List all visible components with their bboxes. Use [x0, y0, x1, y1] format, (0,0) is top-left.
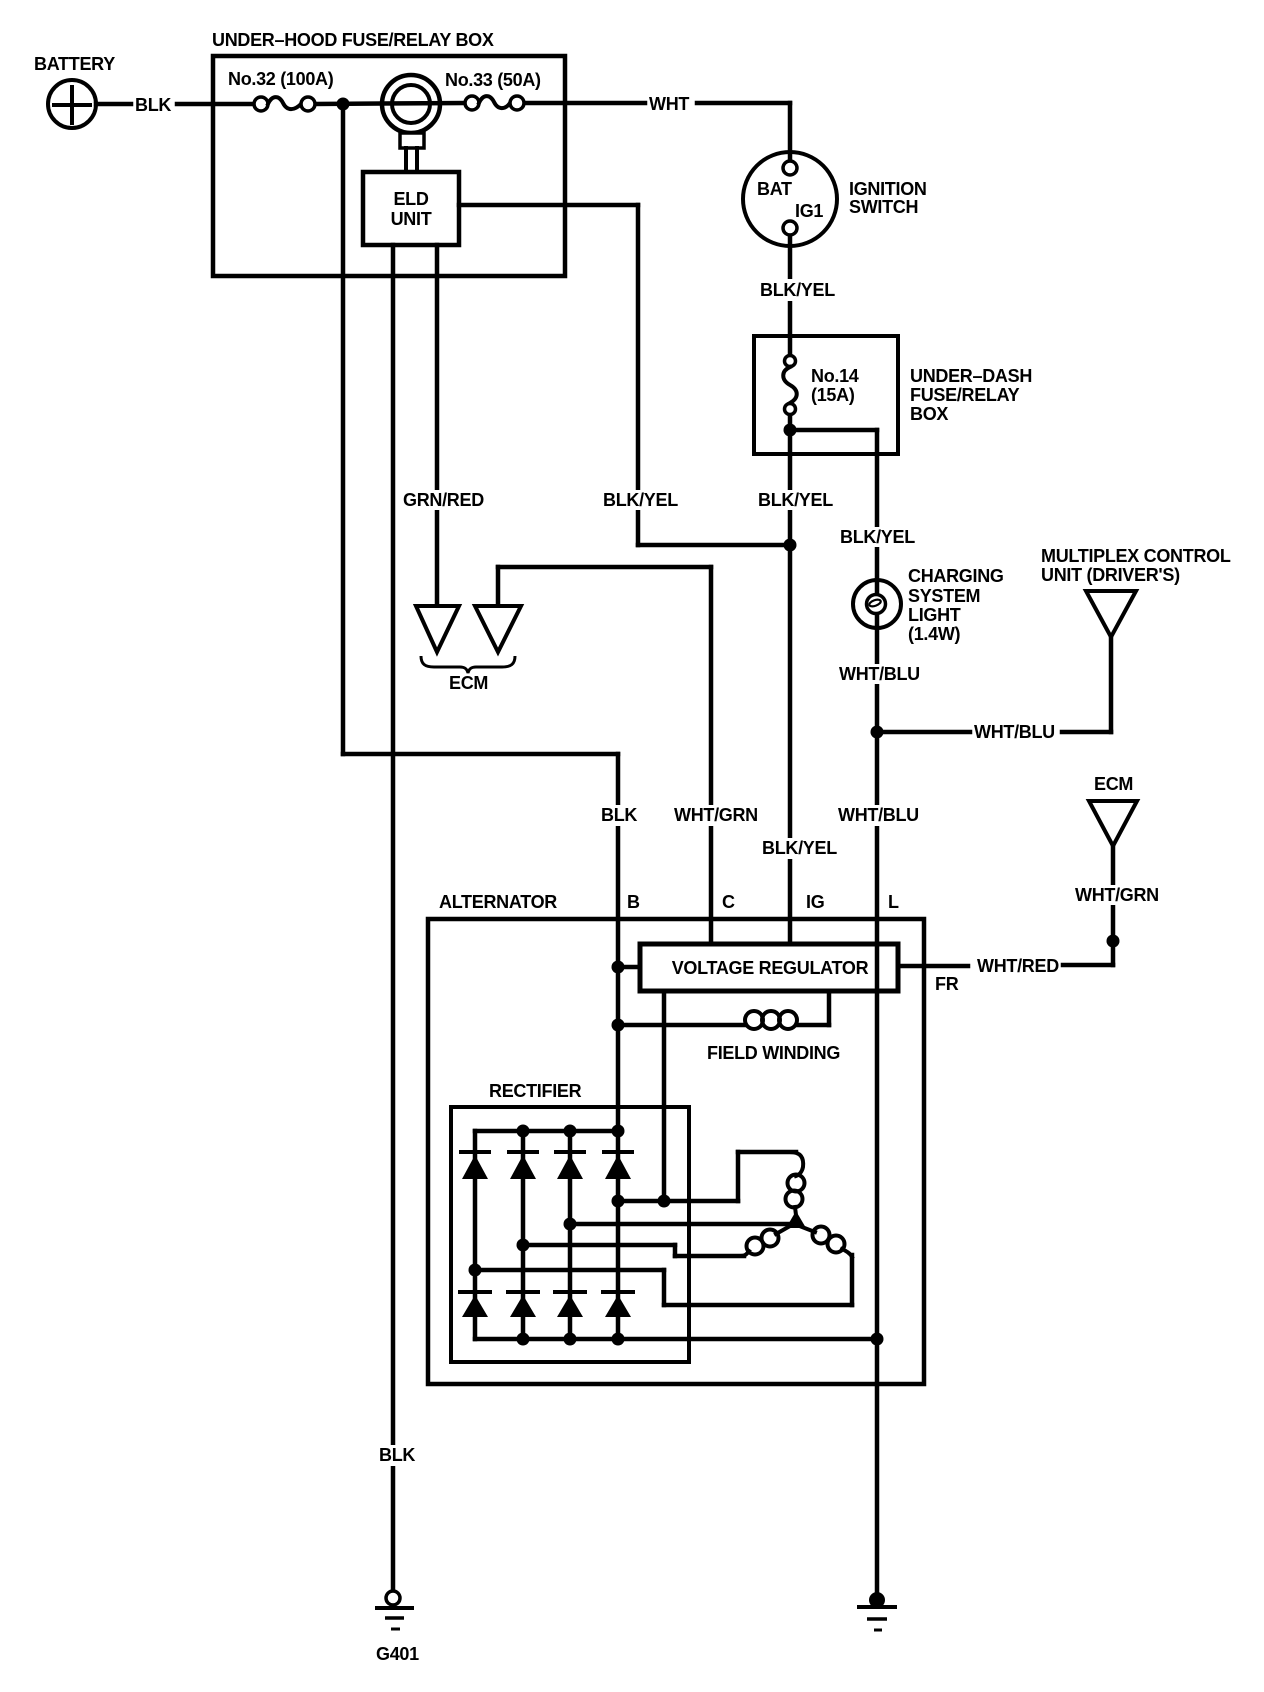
wire ELD pin GRN/RED to ECM triangle [435, 245, 440, 606]
ECM connector triangle 2 [475, 606, 521, 652]
stator star point [786, 1211, 806, 1228]
wire diode column 3 [568, 1131, 573, 1339]
svg-text:L: L [888, 892, 899, 912]
svg-text:WHT/GRN: WHT/GRN [1075, 885, 1159, 905]
label MULTIPLEX CONTROL UNIT (DRIVER'S) [1041, 546, 1231, 585]
rectifier diode D1 upper [461, 1152, 489, 1179]
label BLK/YEL ignition [756, 279, 835, 301]
alternator box [428, 919, 924, 1384]
svg-text:UNDER–DASH: UNDER–DASH [910, 366, 1032, 386]
svg-text:WHT/BLU: WHT/BLU [838, 805, 919, 825]
wire regulator C drop to rectifier [662, 991, 667, 1201]
svg-text:LIGHT: LIGHT [908, 605, 961, 625]
rectifier diode D4 upper [604, 1152, 632, 1179]
wire L column to ground [875, 1339, 880, 1594]
ground G401 [377, 1591, 412, 1629]
junction node fuse box [337, 98, 350, 111]
svg-text:WHT/BLU: WHT/BLU [839, 664, 920, 684]
junction node phase tap 4 [469, 1264, 482, 1277]
svg-text:IG: IG [806, 892, 824, 912]
fuse No.33 [465, 96, 524, 110]
fuse No.32 [254, 97, 315, 111]
junction node bottom bus 3 [612, 1333, 625, 1346]
wire charging light to L column through regulator [875, 612, 880, 1339]
wire WHT to ignition switch [697, 103, 790, 161]
voltage regulator box [640, 944, 898, 991]
wire B column vertical [616, 754, 621, 1339]
multiplex control unit connector triangle [1086, 591, 1136, 637]
svg-text:SYSTEM: SYSTEM [908, 586, 980, 606]
ground right [859, 1592, 895, 1630]
wire rectifier bottom bus [475, 1337, 877, 1342]
svg-text:BLK/YEL: BLK/YEL [840, 527, 915, 547]
ELD unit U1 box [363, 172, 459, 245]
ELD current sensor ring [382, 75, 440, 172]
svg-text:WHT/RED: WHT/RED [977, 956, 1059, 976]
junction node B field winding [612, 1019, 625, 1032]
svg-text:FIELD WINDING: FIELD WINDING [707, 1043, 840, 1063]
svg-text:CHARGING: CHARGING [908, 566, 1004, 586]
wire BLK battery to under-hood box [96, 102, 254, 107]
wire phase 1 tap to stator coil 1 [618, 1152, 796, 1201]
wire WHT/BLU to multiplex unit [877, 637, 1111, 732]
svg-text:BLK/YEL: BLK/YEL [760, 280, 835, 300]
stator coil 3 [802, 1227, 852, 1258]
field winding coil [745, 1011, 797, 1029]
rectifier diode D8 lower [603, 1292, 633, 1317]
junction node BLK/YEL join [784, 539, 797, 552]
wire fuse33 to WHT gap [524, 101, 645, 106]
svg-text:BLK: BLK [135, 95, 171, 115]
svg-text:UNIT (DRIVER'S): UNIT (DRIVER'S) [1041, 565, 1180, 585]
wire BLK/YEL fuse14 down to voltage regulator IG [788, 415, 793, 944]
svg-text:ELD: ELD [393, 189, 428, 209]
rectifier box [451, 1107, 689, 1362]
rectifier diode D7 lower [555, 1292, 585, 1317]
charging system light bulb [853, 580, 901, 628]
svg-text:MULTIPLEX CONTROL: MULTIPLEX CONTROL [1041, 546, 1231, 566]
label BLK/YEL ig column [758, 838, 837, 859]
wire node A down from fuse box junction [341, 104, 346, 754]
label CHARGING SYSTEM LIGHT (1.4W) [908, 566, 1004, 644]
svg-text:B: B [627, 892, 640, 912]
svg-text:No.32 (100A): No.32 (100A) [228, 69, 334, 89]
wire WHT/GRN to regulator C [498, 567, 711, 944]
wire B to regulator left edge [618, 965, 640, 970]
junction node top bus 2 [564, 1125, 577, 1138]
wire ELD right pin BLK/YEL [459, 205, 790, 545]
wire rectifier top bus [475, 1129, 618, 1134]
svg-text:ECM: ECM [1094, 774, 1133, 794]
label WHT/BLU l column [834, 805, 920, 826]
svg-text:C: C [722, 892, 735, 912]
svg-text:VOLTAGE REGULATOR: VOLTAGE REGULATOR [672, 958, 869, 978]
label No.14 (15A) [811, 366, 859, 405]
wire phase 4 tap to stator coil 3 [475, 1255, 852, 1305]
svg-text:SWITCH: SWITCH [849, 197, 918, 217]
ECM connector triangle 1 [416, 606, 459, 652]
junction node top bus 3 [612, 1125, 625, 1138]
svg-text:WHT: WHT [649, 94, 689, 114]
label ELD UNIT [391, 189, 432, 229]
junction node B regulator [612, 961, 625, 974]
junction node fuse 14 out [784, 424, 797, 437]
wire field winding from B [618, 991, 829, 1025]
ECM connector triangle right [1089, 801, 1137, 846]
label WHT/GRN c column [670, 805, 758, 826]
fuse No.14 [783, 356, 797, 415]
wire IG1 BLK/YEL ignition to fuse 14 [788, 235, 793, 355]
svg-text:WHT/GRN: WHT/GRN [674, 805, 758, 825]
junction node phase tap 1 [612, 1195, 625, 1208]
junction node WHT/BLU [871, 726, 884, 739]
svg-text:FR: FR [935, 974, 959, 994]
ECM brace [421, 656, 515, 673]
label UNDER-DASH FUSE/RELAY BOX [910, 366, 1032, 424]
rectifier diode D6 lower [508, 1292, 538, 1317]
label BLK/YEL eld [599, 490, 678, 510]
label BLK ground wire [375, 1445, 417, 1466]
svg-text:BLK/YEL: BLK/YEL [758, 490, 833, 510]
wire diode column 2 [521, 1131, 526, 1339]
stator coil 1 [786, 1152, 805, 1215]
junction node bottom bus 1 [517, 1333, 530, 1346]
junction node bottom bus L [871, 1333, 884, 1346]
svg-text:BOX: BOX [910, 404, 948, 424]
wire WHT/RED FR to ECM branch [900, 965, 1113, 966]
under-hood fuse/relay box [213, 56, 565, 276]
junction node WHT/GRN FR [1107, 935, 1120, 948]
wire under-dash box right branch [790, 430, 877, 596]
junction node C rectifier [658, 1195, 671, 1208]
svg-text:RECTIFIER: RECTIFIER [489, 1081, 582, 1101]
svg-text:FUSE/RELAY: FUSE/RELAY [910, 385, 1020, 405]
svg-text:BATTERY: BATTERY [34, 54, 115, 74]
junction node bottom bus 2 [564, 1333, 577, 1346]
wire BLK horizontal to B column [343, 752, 618, 757]
svg-text:ECM: ECM [449, 673, 488, 693]
wire diode column 1 [473, 1131, 478, 1339]
label BLK/YEL ig [754, 490, 833, 510]
label WHT/GRN ecm branch [1071, 885, 1159, 905]
svg-text:(15A): (15A) [811, 385, 855, 405]
svg-text:BLK/YEL: BLK/YEL [603, 490, 678, 510]
rectifier diode D3 upper [556, 1152, 584, 1179]
svg-text:No.33 (50A): No.33 (50A) [445, 70, 541, 90]
svg-text:UNDER–HOOD FUSE/RELAY BOX: UNDER–HOOD FUSE/RELAY BOX [212, 30, 494, 50]
rectifier diode D2 upper [509, 1152, 537, 1179]
svg-text:IG1: IG1 [795, 201, 823, 221]
label BLK/YEL light [836, 527, 915, 547]
label GRN/RED [399, 490, 484, 510]
label BLK b column [597, 805, 639, 826]
label IGNITION SWITCH [849, 179, 927, 217]
svg-text:No.14: No.14 [811, 366, 859, 386]
wire main bus inside under-hood box [315, 103, 465, 104]
svg-text:G401: G401 [376, 1644, 419, 1664]
under-dash fuse/relay box [754, 336, 898, 454]
svg-text:WHT/BLU: WHT/BLU [974, 722, 1055, 742]
svg-text:BLK: BLK [601, 805, 637, 825]
svg-text:GRN/RED: GRN/RED [403, 490, 484, 510]
label WHT/BLU light [835, 664, 920, 684]
svg-text:BAT: BAT [757, 179, 792, 199]
ignition switch [743, 152, 837, 246]
svg-text:UNIT: UNIT [391, 209, 432, 229]
rectifier diode D5 lower [460, 1292, 490, 1317]
wire phase 2 tap to star point [570, 1222, 790, 1227]
wire phase 3 tap to stator coil 2 [523, 1245, 744, 1256]
stator coil 2 [741, 1226, 790, 1256]
wire ELD pin BLK to ground G401 [391, 245, 396, 1591]
battery symbol [48, 80, 96, 128]
junction node top bus 1 [517, 1125, 530, 1138]
svg-text:IGNITION: IGNITION [849, 179, 927, 199]
junction node phase tap 2 [564, 1218, 577, 1231]
svg-text:ALTERNATOR: ALTERNATOR [439, 892, 557, 912]
wire WHT/GRN ECM triangle down to FR [1111, 846, 1116, 965]
svg-text:(1.4W): (1.4W) [908, 624, 961, 644]
junction node phase tap 3 [517, 1239, 530, 1252]
svg-text:BLK: BLK [379, 1445, 415, 1465]
svg-text:BLK/YEL: BLK/YEL [762, 838, 837, 858]
